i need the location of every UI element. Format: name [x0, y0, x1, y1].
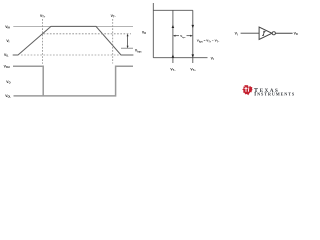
inverter output wire — [276, 32, 293, 34]
inverter input wire — [241, 32, 260, 34]
output waveform — [13, 66, 133, 96]
label V_hys right — [135, 49, 142, 54]
label V_T- below axis — [170, 67, 176, 72]
label V_T+ below axis — [190, 67, 196, 72]
inverter output bubble — [272, 32, 275, 35]
TI logo texas map — [242, 85, 252, 95]
label V_I inverter input — [235, 32, 238, 37]
up arrowheads on VT- vertical — [172, 25, 175, 28]
vertical dashed line at VT+ crossing — [42, 19, 44, 64]
equation V_hys = V_T+ - V_T- — [197, 39, 220, 44]
label V_I axis — [211, 56, 214, 61]
transfer curve x-axis — [153, 57, 207, 59]
label V_OL — [5, 94, 11, 99]
label V_O axis — [142, 30, 146, 35]
label V_I — [6, 39, 9, 44]
vertical dashed line at VT- crossing — [112, 19, 114, 64]
schmitt hysteresis glyph — [262, 31, 266, 35]
label V_T+ top — [40, 14, 46, 19]
label V_IL — [4, 53, 9, 58]
label V_O — [6, 80, 10, 85]
hysteresis delta arrow — [127, 35, 129, 48]
V_IL dashed level line — [21, 54, 120, 56]
V_T- short reference segment — [121, 47, 133, 49]
transfer curve top segment V_OH — [153, 9, 193, 11]
label V_O inverter output — [294, 32, 298, 37]
V_T+ dashed threshold line — [44, 33, 132, 35]
inverter triangle U1 — [259, 27, 272, 39]
transfer curve y-axis — [152, 3, 154, 58]
label V_hys center — [180, 34, 185, 39]
V_IH reference line — [13, 25, 133, 27]
V_hys horizontal arrows — [175, 35, 180, 37]
label V_IH — [5, 25, 10, 30]
label V_OH — [4, 64, 10, 69]
down arrowheads on VT+ vertical — [192, 25, 195, 28]
label V_T- top — [111, 14, 117, 19]
loop vertical at VT- — [172, 10, 174, 63]
input waveform trapezoid — [13, 26, 134, 55]
loop vertical at VT+ — [192, 10, 194, 63]
